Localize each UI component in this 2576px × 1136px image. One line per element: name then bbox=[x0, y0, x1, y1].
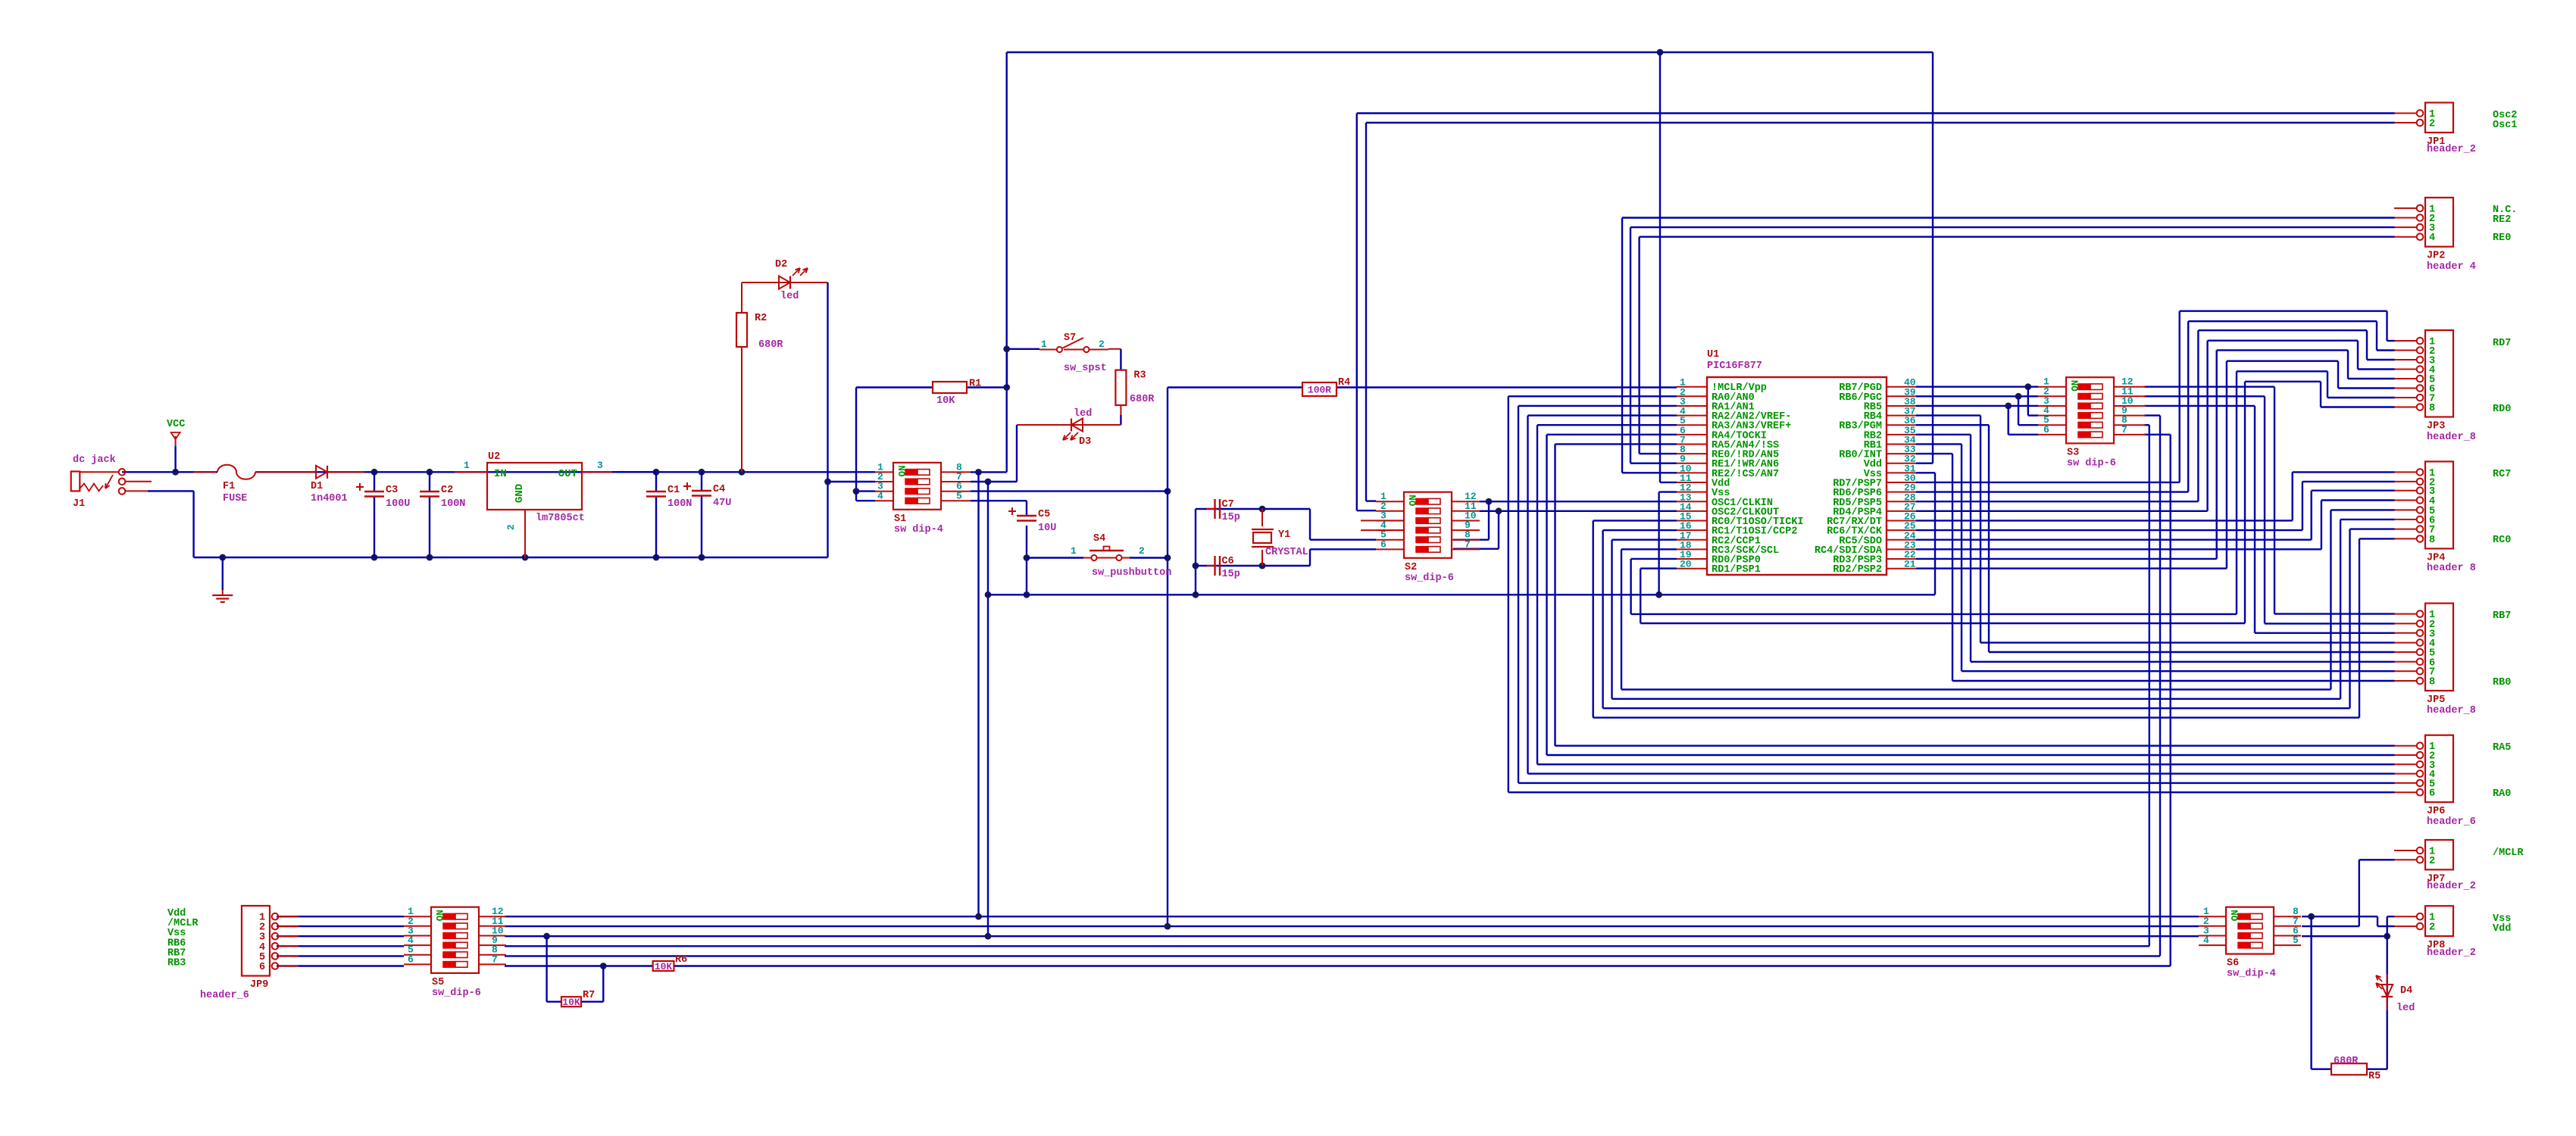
svg-text:R6: R6 bbox=[675, 954, 687, 966]
svg-text:1: 1 bbox=[464, 460, 470, 471]
svg-text:C2: C2 bbox=[441, 485, 453, 496]
svg-text:8: 8 bbox=[2429, 535, 2435, 546]
svg-text:RA0: RA0 bbox=[2493, 788, 2511, 800]
svg-text:4: 4 bbox=[877, 490, 883, 501]
svg-text:100N: 100N bbox=[441, 498, 465, 510]
svg-text:OUT: OUT bbox=[558, 468, 577, 480]
svg-text:1n4001: 1n4001 bbox=[311, 493, 348, 504]
svg-text:RD1/PSP1: RD1/PSP1 bbox=[1712, 564, 1761, 576]
svg-text:sw_spst: sw_spst bbox=[1064, 363, 1107, 374]
svg-text:5: 5 bbox=[2293, 935, 2299, 946]
svg-text:header_8: header_8 bbox=[2427, 705, 2476, 716]
svg-text:6: 6 bbox=[408, 953, 414, 965]
svg-text:D2: D2 bbox=[775, 259, 787, 270]
svg-text:header 8: header 8 bbox=[2427, 563, 2476, 574]
svg-text:4: 4 bbox=[2429, 233, 2435, 244]
svg-text:C7: C7 bbox=[1222, 499, 1234, 510]
svg-text:8: 8 bbox=[2429, 677, 2435, 688]
svg-text:RB3: RB3 bbox=[167, 958, 186, 969]
svg-text:C3: C3 bbox=[386, 485, 398, 496]
svg-text:sw_dip-4: sw_dip-4 bbox=[2227, 969, 2276, 980]
svg-text:C5: C5 bbox=[1038, 509, 1050, 520]
svg-text:6: 6 bbox=[259, 962, 265, 973]
svg-text:RC0: RC0 bbox=[2493, 535, 2511, 546]
svg-text:D4: D4 bbox=[2400, 985, 2412, 997]
svg-text:GND: GND bbox=[514, 484, 526, 503]
svg-text:lm7805ct: lm7805ct bbox=[536, 513, 585, 524]
svg-text:R1: R1 bbox=[969, 379, 981, 390]
svg-text:RA5: RA5 bbox=[2493, 742, 2511, 754]
svg-text:RE0: RE0 bbox=[2493, 233, 2511, 244]
svg-text:JP2: JP2 bbox=[2427, 251, 2445, 262]
svg-text:S2: S2 bbox=[1405, 562, 1417, 573]
svg-text:JP3: JP3 bbox=[2427, 421, 2445, 432]
svg-text:6: 6 bbox=[2043, 424, 2049, 435]
svg-text:10K: 10K bbox=[936, 395, 955, 407]
svg-text:680R: 680R bbox=[2334, 1056, 2359, 1067]
svg-text:10K: 10K bbox=[562, 997, 580, 1008]
svg-text:J1: J1 bbox=[73, 498, 85, 510]
svg-text:RD0: RD0 bbox=[2493, 404, 2511, 415]
svg-text:R5: R5 bbox=[2368, 1071, 2381, 1082]
svg-text:JP5: JP5 bbox=[2427, 694, 2445, 706]
svg-text:S4: S4 bbox=[1093, 533, 1105, 545]
svg-text:10K: 10K bbox=[655, 961, 673, 972]
svg-text:2: 2 bbox=[1139, 545, 1145, 557]
svg-text:4: 4 bbox=[2203, 935, 2209, 946]
svg-text:FUSE: FUSE bbox=[223, 493, 247, 504]
svg-text:7: 7 bbox=[2121, 424, 2127, 435]
svg-text:680R: 680R bbox=[758, 339, 783, 351]
svg-text:dc jack: dc jack bbox=[73, 454, 116, 466]
svg-text:1: 1 bbox=[1071, 545, 1077, 557]
svg-text:RE2: RE2 bbox=[2493, 214, 2511, 226]
svg-text:S6: S6 bbox=[2227, 958, 2239, 969]
svg-text:RD2/PSP2: RD2/PSP2 bbox=[1833, 564, 1882, 576]
svg-text:header_6: header_6 bbox=[200, 990, 249, 1001]
svg-text:header_2: header_2 bbox=[2427, 947, 2476, 959]
svg-text:2: 2 bbox=[2429, 119, 2435, 130]
svg-text:S5: S5 bbox=[432, 977, 444, 988]
svg-text:U2: U2 bbox=[488, 451, 500, 463]
svg-text:VCC: VCC bbox=[167, 419, 185, 430]
svg-text:S1: S1 bbox=[894, 513, 906, 525]
svg-text:21: 21 bbox=[1904, 559, 1916, 570]
svg-text:15p: 15p bbox=[1222, 512, 1240, 523]
svg-text:100R: 100R bbox=[1308, 385, 1331, 396]
svg-text:3: 3 bbox=[597, 460, 603, 471]
svg-text:R4: R4 bbox=[1338, 377, 1350, 389]
svg-text:Osc1: Osc1 bbox=[2493, 120, 2517, 131]
svg-text:CRYSTAL: CRYSTAL bbox=[1265, 547, 1308, 558]
svg-text:7: 7 bbox=[1465, 538, 1471, 550]
svg-text:sw dip-4: sw dip-4 bbox=[894, 524, 943, 535]
svg-text:F1: F1 bbox=[223, 481, 235, 492]
svg-text:R3: R3 bbox=[1133, 370, 1146, 382]
svg-text:led: led bbox=[2396, 1003, 2415, 1014]
svg-text:2: 2 bbox=[505, 524, 517, 530]
svg-text:S3: S3 bbox=[2067, 447, 2079, 458]
svg-text:6: 6 bbox=[2429, 788, 2435, 800]
svg-text:header_2: header_2 bbox=[2427, 881, 2476, 892]
svg-text:JP9: JP9 bbox=[250, 979, 268, 991]
svg-text:C6: C6 bbox=[1222, 556, 1234, 567]
svg-text:Vdd: Vdd bbox=[2493, 923, 2511, 935]
svg-text:PIC16F877: PIC16F877 bbox=[1707, 360, 1762, 372]
svg-text:2: 2 bbox=[1099, 339, 1105, 350]
svg-text:R2: R2 bbox=[755, 313, 767, 324]
svg-text:RB0: RB0 bbox=[2493, 677, 2511, 688]
svg-text:header_2: header_2 bbox=[2427, 144, 2476, 155]
svg-text:C1: C1 bbox=[667, 485, 680, 496]
svg-text:JP6: JP6 bbox=[2427, 806, 2445, 817]
svg-text:sw_dip-6: sw_dip-6 bbox=[432, 988, 481, 999]
svg-text:C4: C4 bbox=[713, 484, 725, 495]
svg-text:RD7: RD7 bbox=[2493, 338, 2511, 349]
svg-text:8: 8 bbox=[2429, 403, 2435, 414]
svg-text:S7: S7 bbox=[1064, 332, 1076, 344]
svg-text:header_6: header_6 bbox=[2427, 816, 2476, 828]
svg-text:header 4: header 4 bbox=[2427, 261, 2476, 273]
svg-text:Y1: Y1 bbox=[1278, 529, 1290, 541]
svg-text:sw dip-6: sw dip-6 bbox=[2067, 457, 2116, 469]
svg-text:D3: D3 bbox=[1079, 436, 1091, 448]
svg-text:6: 6 bbox=[1380, 538, 1386, 550]
svg-text:100U: 100U bbox=[386, 498, 410, 510]
svg-text:5: 5 bbox=[956, 490, 962, 501]
svg-text:RB7: RB7 bbox=[2493, 610, 2511, 622]
svg-text:15p: 15p bbox=[1222, 569, 1240, 580]
svg-text:20: 20 bbox=[1680, 559, 1692, 570]
svg-text:led: led bbox=[1074, 408, 1092, 420]
svg-text:10U: 10U bbox=[1038, 523, 1056, 534]
svg-text:D1: D1 bbox=[311, 481, 323, 492]
svg-text:680R: 680R bbox=[1130, 394, 1155, 405]
svg-text:R7: R7 bbox=[583, 990, 595, 1001]
svg-text:sw_pushbutton: sw_pushbutton bbox=[1092, 567, 1171, 579]
svg-text:47U: 47U bbox=[713, 498, 731, 509]
svg-text:led: led bbox=[780, 291, 799, 302]
svg-text:/MCLR: /MCLR bbox=[2493, 847, 2524, 859]
svg-text:1: 1 bbox=[1041, 339, 1047, 350]
svg-text:sw_dip-6: sw_dip-6 bbox=[1405, 573, 1454, 584]
svg-text:U1: U1 bbox=[1707, 349, 1719, 360]
svg-text:7: 7 bbox=[492, 953, 498, 965]
svg-text:IN: IN bbox=[494, 468, 507, 480]
svg-text:RC7: RC7 bbox=[2493, 469, 2511, 480]
svg-text:2: 2 bbox=[2429, 922, 2435, 934]
svg-text:2: 2 bbox=[2429, 856, 2435, 867]
svg-text:100N: 100N bbox=[667, 498, 692, 510]
svg-text:header_8: header_8 bbox=[2427, 432, 2476, 443]
